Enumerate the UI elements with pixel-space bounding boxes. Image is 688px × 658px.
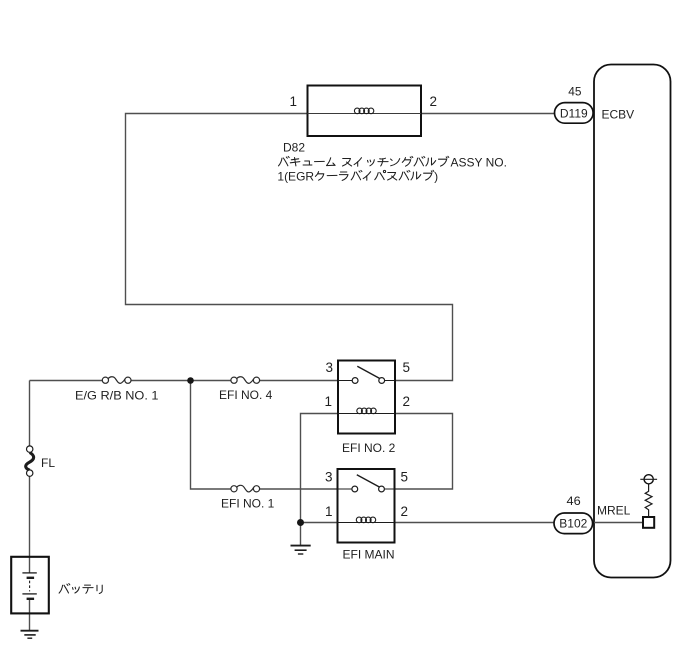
connector B102 oval xyxy=(554,513,593,534)
fusible link FL xyxy=(26,446,34,476)
label D82 name line 2 (katakana) xyxy=(315,170,434,180)
svg-text:45: 45 xyxy=(568,84,582,98)
svg-text:1: 1 xyxy=(325,504,333,519)
node: junction of relay coil grounds xyxy=(297,519,304,526)
svg-text:D119: D119 xyxy=(560,107,588,121)
resistor inside ECU xyxy=(645,484,652,517)
relay EFI MAIN box xyxy=(338,469,395,543)
relay EFI NO.2 coil xyxy=(338,408,395,414)
svg-text:EFI NO. 2: EFI NO. 2 xyxy=(342,441,396,455)
relay EFI NO.2 switch xyxy=(338,366,395,383)
wire: D82 pin1 left, down, across, down to EFI NO.2 pin5 xyxy=(126,114,453,381)
label battery (katakana) xyxy=(59,584,102,594)
fuse E/G R/B NO. 1 xyxy=(102,377,131,384)
svg-text:2: 2 xyxy=(401,504,409,519)
svg-text:2: 2 xyxy=(430,94,438,109)
wire: EFI MAIN coil pin2 to connector B102 xyxy=(395,522,555,524)
relay EFI MAIN coil xyxy=(338,517,395,523)
fuse EFI NO. 1 xyxy=(231,485,260,492)
ECU block (ECM) xyxy=(594,65,671,578)
svg-text:EFI MAIN: EFI MAIN xyxy=(343,547,395,561)
svg-text:ASSY NO.: ASSY NO. xyxy=(451,155,507,169)
wire: battery positive lead inside box and to ground xyxy=(29,557,31,630)
node: junction of bus and EFI NO.1 branch xyxy=(187,377,194,384)
svg-text:46: 46 xyxy=(567,494,582,508)
wire through D82 xyxy=(308,113,422,115)
wire: B102 into ECU to MREL terminal square xyxy=(593,522,643,524)
wire: left riser from bus down to fusible link and battery xyxy=(29,381,31,558)
relay EFI NO.2 box xyxy=(338,361,395,434)
svg-text:D82: D82 xyxy=(283,141,305,155)
svg-text:B102: B102 xyxy=(559,517,587,531)
battery cells xyxy=(22,573,36,599)
fuse EFI NO. 4 xyxy=(231,377,260,384)
svg-text:EFI NO. 1: EFI NO. 1 xyxy=(221,497,275,511)
label D82 name line 1 (katakana) xyxy=(279,156,449,166)
wire: EFI NO.2 coil pin1 left and down to ground junction xyxy=(301,414,339,546)
svg-text:5: 5 xyxy=(401,470,409,485)
MREL terminal square xyxy=(643,517,654,528)
connector D119 oval xyxy=(555,103,594,124)
svg-text:): ) xyxy=(434,169,438,183)
wire: battery bus from left riser to EFI NO.2 pin3 xyxy=(30,380,339,382)
ground below battery xyxy=(21,631,39,639)
svg-text:2: 2 xyxy=(403,394,411,409)
svg-text:MREL: MREL xyxy=(597,504,631,518)
svg-text:E/G R/B NO. 1: E/G R/B NO. 1 xyxy=(75,389,159,403)
wire: EFI MAIN coil pin1 to ground junction xyxy=(301,522,338,524)
svg-text:5: 5 xyxy=(403,360,411,375)
coil of D82 xyxy=(354,108,373,114)
svg-text:ECBV: ECBV xyxy=(602,107,635,121)
crossbar through terminal circle xyxy=(640,478,657,480)
svg-text:FL: FL xyxy=(41,456,55,470)
wire: EFI NO.2 coil pin2 right, down to EFI MAIN pin5 xyxy=(395,414,453,490)
svg-text:3: 3 xyxy=(325,360,333,375)
svg-text:1: 1 xyxy=(324,394,332,409)
battery box xyxy=(11,557,49,614)
svg-text:3: 3 xyxy=(325,470,333,485)
svg-text:EFI NO. 4: EFI NO. 4 xyxy=(219,388,273,402)
wire: MREL pin wire inside ECU xyxy=(594,522,643,524)
solenoid D82 box xyxy=(308,86,422,137)
terminal circle inside ECU xyxy=(644,475,653,484)
svg-text:1(EGR: 1(EGR xyxy=(277,169,314,183)
svg-text:1: 1 xyxy=(289,94,297,109)
wire: D82 pin2 to connector D119 xyxy=(421,113,555,115)
wire: branch from junction down and right through EFI NO.1 to EFI MAIN pin3 xyxy=(191,381,338,490)
relay EFI MAIN switch xyxy=(338,475,395,492)
ground at relay coil junction xyxy=(291,546,311,554)
